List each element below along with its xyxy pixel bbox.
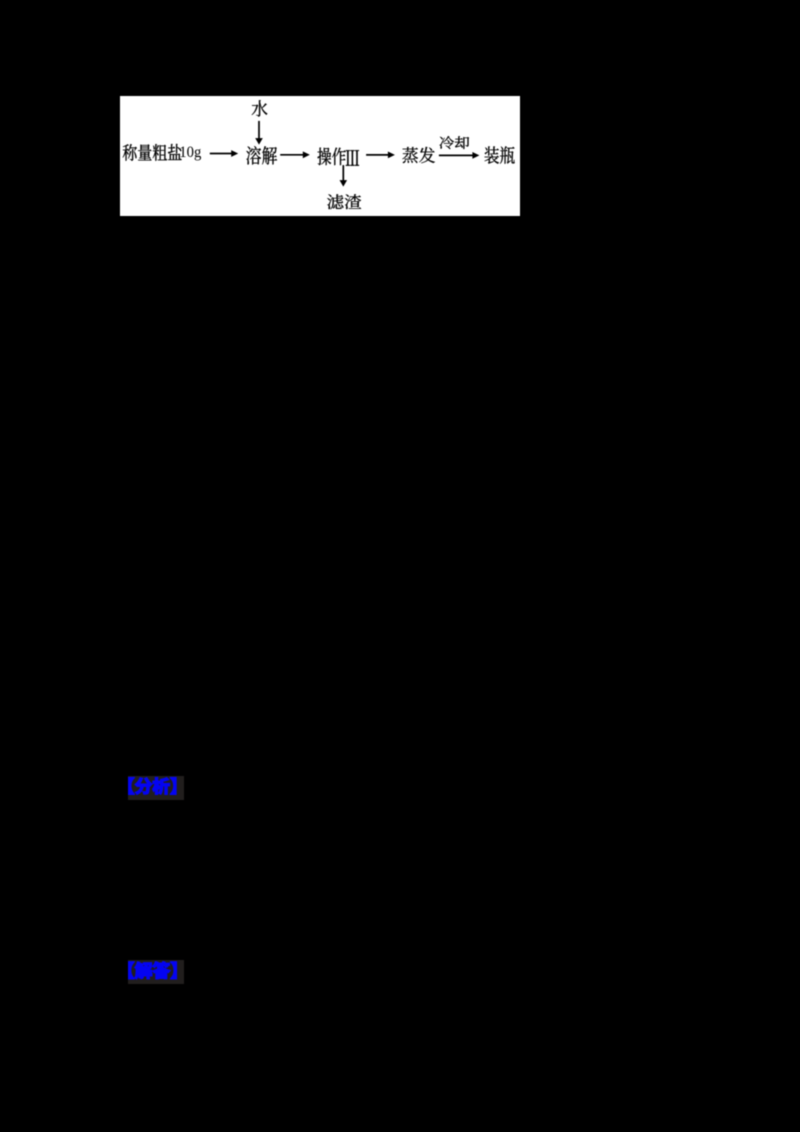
svg-text:10g: 10g: [179, 144, 201, 161]
